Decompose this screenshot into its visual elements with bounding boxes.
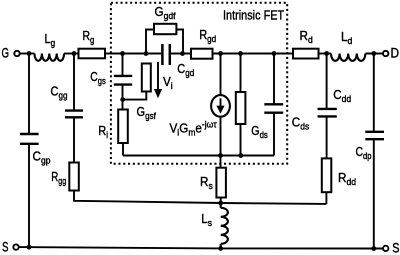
resistor Ri — [118, 110, 128, 144]
wire Gds bottom — [240, 124, 242, 156]
capacitor Cds — [264, 104, 283, 112]
node Ls top — [218, 201, 223, 206]
node current source bottom — [218, 153, 223, 158]
node Ggsf junction — [144, 51, 149, 56]
wire G to Lg — [20, 53, 35, 55]
inductor Ld — [331, 54, 365, 61]
terminal D — [383, 51, 388, 56]
resistor Rgg — [69, 163, 79, 191]
resistor Rgd — [191, 49, 213, 59]
wire Rd to Ld — [319, 53, 332, 55]
wire gate pad down — [28, 54, 30, 135]
wire Cgd to Rgd — [171, 53, 191, 55]
wire Cgg branch top — [73, 54, 75, 111]
wire Ri to inner bottom rail — [122, 143, 124, 156]
capacitor Cgs — [114, 76, 132, 85]
resistor Gds — [236, 92, 246, 124]
resistor Rs — [216, 168, 226, 198]
capacitor Cdp — [365, 132, 384, 139]
wire Cds top — [273, 54, 275, 105]
wire Rg to Cgd — [105, 53, 161, 55]
svg-text:D: D — [391, 45, 400, 61]
capacitor Cdd — [318, 109, 337, 117]
node source-left junction — [27, 245, 32, 250]
wire Cdd top — [326, 54, 328, 109]
wire Rdd to mid rail — [325, 192, 327, 204]
node Gds top — [238, 51, 243, 56]
node Gds bottom — [238, 153, 243, 158]
wire inner bottom rail — [123, 155, 274, 157]
svg-text:S: S — [2, 240, 9, 255]
wire Rgg to mid rail — [74, 191, 326, 204]
inductor Ls — [221, 203, 228, 248]
wire Cgg to Rgg — [73, 117, 75, 162]
wire Lg to Rg — [64, 53, 78, 55]
node source-right junction — [371, 246, 376, 251]
node Cgs junction — [120, 51, 125, 56]
wire Rs to mid rail — [220, 198, 222, 204]
resistor Ggdf — [154, 24, 176, 34]
node Ls bottom — [218, 246, 223, 251]
wire Cgs to node C — [122, 85, 124, 110]
resistor Rdd — [322, 158, 332, 192]
wire Gds top — [240, 54, 242, 93]
capacitor Cgp — [20, 134, 39, 144]
node Cdp junction — [371, 51, 376, 56]
wire Ld to D — [365, 53, 383, 55]
wire Cgp to source rail — [28, 144, 30, 248]
wire Cds bottom — [273, 113, 275, 156]
node Cds top — [272, 51, 277, 56]
dashed box Intrinsic FET — [111, 3, 287, 164]
wire Cdp top — [373, 54, 375, 132]
node Ggdf right junction — [180, 51, 185, 56]
node Cdd junction — [324, 51, 329, 56]
wire Ggdf loop left riser — [146, 30, 154, 54]
wire Rgd to Rd — [213, 53, 294, 55]
resistor Ggsf — [142, 64, 151, 92]
wire Cdp to source rail — [373, 139, 375, 248]
resistor Rd — [293, 49, 319, 59]
node gate-pad junction — [27, 51, 32, 56]
terminal S left — [13, 244, 18, 249]
capacitor Cgg — [65, 111, 83, 118]
wire current source bottom — [220, 117, 222, 156]
wire source rail — [19, 247, 383, 248]
wire Cdd to Rdd — [326, 116, 328, 158]
arrow Vi — [154, 62, 162, 98]
svg-text:Intrinsic FET: Intrinsic FET — [223, 7, 285, 22]
inductor Lg — [35, 54, 65, 61]
node current source top — [218, 51, 223, 56]
node C junction — [120, 97, 125, 102]
wire Ggsf to node C — [123, 92, 147, 100]
wire Ggdf loop right riser — [176, 30, 183, 54]
node Cgg junction — [72, 51, 77, 56]
wire Cgs branch top — [122, 54, 124, 76]
terminal S right — [383, 246, 388, 251]
current source ViGm — [211, 95, 230, 117]
terminal G — [14, 51, 19, 56]
wire Rs top — [220, 156, 222, 168]
svg-text:G: G — [2, 46, 10, 61]
resistor Rg — [79, 49, 106, 59]
svg-text:S: S — [392, 240, 399, 255]
capacitor Cgd — [162, 44, 169, 65]
wire current source top — [220, 54, 222, 96]
